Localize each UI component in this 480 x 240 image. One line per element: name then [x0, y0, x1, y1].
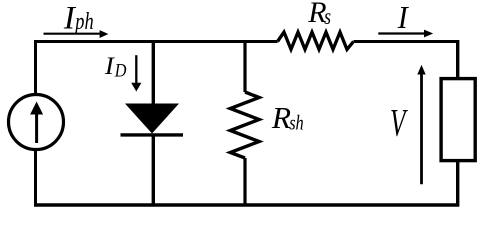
svg-text:V: V: [390, 101, 408, 145]
svg-text:I: I: [104, 52, 115, 80]
svg-text:sh: sh: [289, 111, 304, 135]
svg-text:ph: ph: [74, 8, 94, 35]
svg-text:s: s: [324, 5, 331, 30]
svg-text:I: I: [397, 0, 410, 35]
svg-text:R: R: [271, 102, 291, 135]
svg-text:D: D: [114, 59, 127, 80]
